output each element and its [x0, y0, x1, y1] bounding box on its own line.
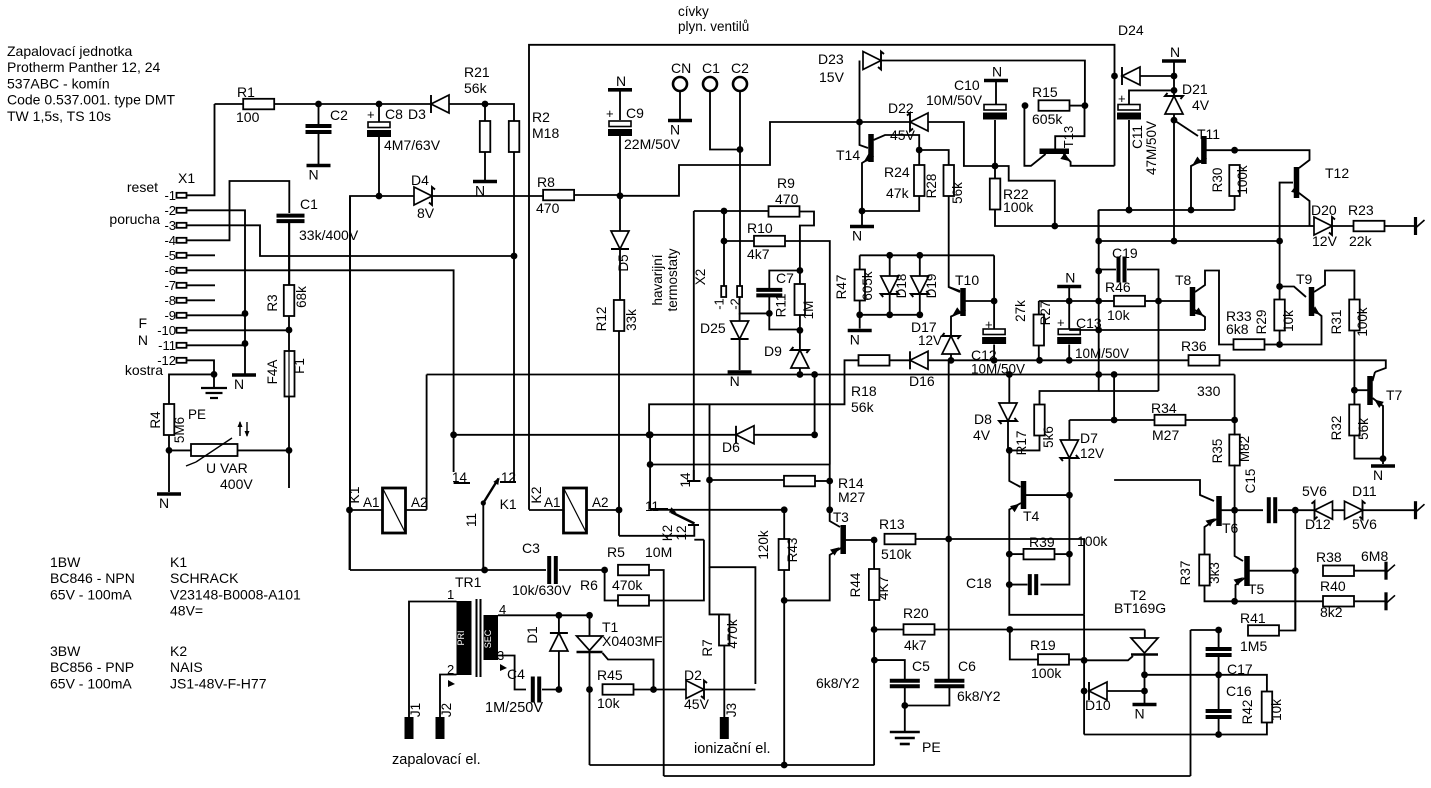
- svg-text:N: N: [852, 228, 862, 244]
- arrow T9 emitter: [1311, 306, 1323, 317]
- wire X1-11 to N line: [187, 344, 246, 346]
- wire K1 A2 lead: [406, 509, 427, 511]
- junction D1 top: [556, 612, 563, 619]
- wire x709 vertical: [709, 404, 711, 480]
- net N under R21: [473, 180, 497, 184]
- wire C9 to junction: [619, 136, 621, 196]
- svg-text:C6: C6: [958, 658, 976, 674]
- wire y435 line: [454, 434, 710, 436]
- X1 pin -8 pad: [177, 298, 187, 303]
- wire long line y374: [427, 374, 1235, 376]
- wire T3 collector: [846, 539, 875, 541]
- wire T14 node to D23: [859, 61, 861, 123]
- wire C16 bottom lead: [1218, 718, 1220, 735]
- wire R43 bottom to rail A: [783, 570, 785, 765]
- junction K1 pivot on C3 line: [481, 567, 488, 574]
- svg-text:C1: C1: [702, 60, 720, 76]
- wire kostra to R4: [169, 374, 214, 404]
- zener diode D11 5V6: [1345, 501, 1363, 519]
- svg-text:R5: R5: [607, 544, 625, 560]
- svg-text:R27: R27: [1038, 301, 1053, 326]
- wire T8 base vertical: [1158, 301, 1160, 391]
- junction D8/R17: [1006, 447, 1013, 454]
- svg-text:605k: 605k: [860, 271, 875, 301]
- wire R29 top lead: [1279, 287, 1281, 300]
- wire D18 top lead: [889, 255, 891, 277]
- junction R10 left: [721, 238, 728, 245]
- X1 pin -7 pad: [177, 283, 187, 288]
- svg-text:470k: 470k: [612, 577, 643, 593]
- svg-text:X2: X2: [693, 269, 708, 286]
- X1 pin -6 pad: [177, 268, 187, 273]
- svg-text:R12: R12: [594, 307, 609, 332]
- svg-text:R8: R8: [537, 174, 555, 190]
- resistor R47: [855, 270, 866, 301]
- wire D1 top lead: [558, 615, 560, 634]
- svg-text:N: N: [159, 495, 169, 511]
- svg-text:TR1: TR1: [455, 574, 482, 590]
- capacitor C2: [306, 126, 332, 132]
- junction R24 bottom: [859, 208, 866, 215]
- arrow T13 emitter: [1060, 153, 1072, 164]
- svg-text:cívky: cívky: [678, 4, 709, 19]
- svg-text:5V6: 5V6: [1302, 483, 1327, 499]
- junction C19 left: [1095, 268, 1102, 275]
- resistor R45: [603, 684, 634, 695]
- svg-text:R31: R31: [1329, 310, 1344, 335]
- arrow K2 arm: [669, 507, 678, 515]
- wire T2 cathode down: [1144, 655, 1146, 704]
- zener diode D17 12V: [942, 336, 960, 354]
- thyristor T1: [577, 636, 603, 651]
- terminal after R38: [1384, 562, 1387, 580]
- wire K2 A2 lead: [587, 509, 620, 511]
- svg-text:N: N: [1135, 706, 1145, 722]
- net N above C13: [1057, 285, 1081, 289]
- junction y330 branch: [1095, 327, 1102, 334]
- junction R22 bottom line: [1051, 223, 1058, 230]
- wire K1 A1 lead: [350, 509, 383, 511]
- wire D3 to R21: [449, 103, 485, 105]
- wire T7 emitter: [1373, 398, 1384, 459]
- resistor R37: [1199, 555, 1210, 586]
- svg-text:6k8/Y2: 6k8/Y2: [816, 675, 860, 691]
- svg-text:537ABC - komín: 537ABC - komín: [7, 75, 110, 91]
- X1 pin -9 pad: [177, 313, 187, 318]
- transistor T6 bar: [1216, 496, 1222, 526]
- junction varistor/F1 line: [286, 447, 293, 454]
- wire T2 gate: [1084, 656, 1133, 660]
- svg-text:100k: 100k: [1235, 165, 1250, 195]
- svg-text:F: F: [138, 315, 147, 331]
- arrow T3 emitter: [830, 544, 842, 555]
- wire T14 emitter: [862, 156, 874, 225]
- svg-text:330: 330: [1197, 383, 1221, 399]
- svg-text:15V: 15V: [819, 69, 845, 85]
- wire R43 top lead: [783, 510, 785, 539]
- svg-text:R21: R21: [464, 64, 490, 80]
- svg-text:5V6: 5V6: [1352, 516, 1377, 532]
- svg-text:-5: -5: [164, 248, 176, 263]
- svg-text:-6: -6: [164, 263, 176, 278]
- transistor T13 bar horizontal: [1040, 149, 1070, 155]
- junction C8 bottom / D4 line: [376, 193, 383, 200]
- wire R9 right to R11 top: [800, 212, 815, 271]
- wire D18 bottom lead: [889, 294, 891, 315]
- wire x949 vertical D17 to C6 top: [948, 360, 950, 679]
- svg-text:T7: T7: [1386, 387, 1403, 403]
- wire D6 node riser to y374: [814, 375, 816, 435]
- wire T8 collector to R33: [1195, 271, 1234, 345]
- wire TR1 pin4 line: [498, 614, 559, 616]
- svg-text:C18: C18: [966, 575, 992, 591]
- wire to D21: [1173, 90, 1175, 97]
- wire C8 junction to D4: [379, 195, 414, 197]
- capacitor C5: [890, 681, 920, 686]
- ground PE: [890, 732, 920, 744]
- arrow T12 emitter: [1291, 186, 1303, 197]
- K2 contact arm: [671, 512, 695, 524]
- diode D10: [1089, 682, 1107, 700]
- wire R42 bottom to y734: [1219, 723, 1267, 735]
- junction R5/R6 left: [601, 567, 608, 574]
- coil terminal C1: [703, 77, 717, 91]
- wire x704 riser to K2-12 line: [703, 540, 705, 560]
- svg-text:R47: R47: [834, 275, 849, 300]
- junction R39 right: [1066, 551, 1073, 558]
- zener diode D9: [791, 350, 809, 368]
- resistor R17: [1034, 405, 1045, 436]
- wire R44 top lead: [873, 540, 875, 569]
- wire T8 emitter: [1195, 310, 1205, 330]
- wire D16 line to R36: [928, 359, 1189, 361]
- resistor R46: [1114, 296, 1145, 307]
- junction x1099 riser: [1095, 371, 1102, 378]
- capacitor C15: [1269, 497, 1275, 523]
- wire R36 right to T7 collector: [1220, 360, 1386, 372]
- arrow T4 emitter: [1010, 501, 1022, 512]
- diode D25: [731, 321, 749, 339]
- svg-text:-9: -9: [164, 308, 176, 323]
- wire to D12: [1295, 509, 1314, 511]
- svg-text:4k7: 4k7: [904, 637, 927, 653]
- capacitor C1: [277, 216, 305, 222]
- resistor R20: [904, 624, 935, 635]
- svg-text:T3: T3: [833, 510, 849, 525]
- wire y255 rail (R47/D18/D19): [860, 254, 994, 256]
- svg-text:11: 11: [464, 513, 479, 527]
- wire X1-3 to R2 net: [187, 225, 515, 256]
- svg-text:-11: -11: [158, 338, 176, 353]
- wire to R24: [918, 150, 920, 165]
- wire K2 contact 11 to R43/T3 net: [650, 509, 784, 511]
- wire R33 right: [1265, 344, 1280, 346]
- junction K1 A1 / x350: [346, 507, 353, 514]
- junction T6 collector: [1231, 507, 1238, 514]
- svg-text:100k: 100k: [1355, 307, 1370, 337]
- arrow T11 emitter: [1190, 157, 1202, 168]
- junction D19 bottom: [916, 311, 923, 318]
- transistor T5 bar: [1244, 556, 1250, 586]
- wire to PE ground: [904, 706, 906, 732]
- wire R4 to varistor node: [168, 435, 170, 450]
- zener diode D19: [911, 276, 929, 294]
- wire R27 top: [1038, 301, 1040, 315]
- svg-text:R45: R45: [597, 667, 623, 683]
- wire K1 A1 down to C3 line: [349, 510, 351, 570]
- svg-text:termostaty: termostaty: [665, 248, 680, 311]
- svg-text:33k: 33k: [624, 309, 639, 331]
- svg-text:C1: C1: [300, 196, 318, 212]
- X1 pin -11 pad: [177, 343, 187, 348]
- capacitor C3: [549, 556, 556, 584]
- wire y734 line: [1084, 734, 1219, 736]
- svg-text:12V: 12V: [1080, 446, 1104, 461]
- junction K1 arm pivot: [481, 500, 486, 505]
- wire R17 top to x1099: [1040, 375, 1099, 405]
- net N under C2: [307, 164, 331, 168]
- wire kostra ground stem: [213, 374, 215, 387]
- wire R2 to junction: [513, 152, 515, 256]
- arrow T7 emitter: [1372, 396, 1384, 407]
- svg-text:A2: A2: [592, 495, 609, 510]
- resistor R24: [914, 165, 925, 196]
- svg-text:K1: K1: [500, 496, 517, 512]
- junction D10 right on cathode line: [1141, 688, 1148, 695]
- wire to R22: [994, 166, 996, 179]
- svg-text:plyn. ventilů: plyn. ventilů: [678, 19, 749, 34]
- junction y435 at K2-11: [647, 431, 654, 438]
- svg-text:100k: 100k: [1003, 199, 1034, 215]
- transistor T9 bar: [1309, 287, 1315, 316]
- wire R5R6 node to x704 riser: [664, 560, 704, 601]
- junction D17 on D16 line: [948, 357, 955, 364]
- svg-text:D8: D8: [974, 411, 992, 427]
- junction R47 bottom: [856, 311, 863, 318]
- wire C13 bottom lead: [1068, 345, 1070, 361]
- wire C17 top lead: [1218, 630, 1220, 648]
- net N under D25: [728, 370, 752, 374]
- wire C7 bottom to R11 bottom: [769, 313, 800, 329]
- wire X2 top to R9: [694, 210, 769, 212]
- wire D7 net down to C18 right: [1041, 495, 1070, 584]
- electrolytic capacitor C10: [984, 105, 1006, 111]
- svg-text:K1: K1: [170, 554, 187, 570]
- svg-text:-8: -8: [164, 293, 176, 308]
- svg-text:R13: R13: [879, 516, 905, 532]
- junction kostra: [211, 371, 218, 378]
- wire R19 right lead: [1069, 659, 1084, 661]
- wire T11 emitter: [1191, 158, 1207, 210]
- resistor R36: [1189, 355, 1220, 366]
- svg-text:R41: R41: [1240, 610, 1266, 626]
- junction D2 riser: [754, 683, 756, 685]
- wire R14 right lead: [815, 480, 830, 482]
- svg-text:R34: R34: [1151, 400, 1177, 416]
- wire R14 left lead: [710, 479, 785, 481]
- zener diode D8 4V: [999, 403, 1017, 421]
- junction C2 top: [315, 101, 322, 108]
- junction R18 net on y435: [646, 431, 653, 438]
- net N above C10: [984, 79, 1008, 83]
- svg-text:ionizační el.: ionizační el.: [694, 741, 771, 757]
- svg-text:+: +: [367, 107, 375, 122]
- svg-text:R30: R30: [1210, 168, 1225, 193]
- electrolytic capacitor C9: [609, 121, 631, 127]
- svg-text:10M/50V: 10M/50V: [926, 92, 983, 108]
- wire D24 node down to T13 emitter: [1114, 76, 1116, 166]
- svg-text:22M/50V: 22M/50V: [624, 136, 681, 152]
- junction R21 top: [482, 101, 489, 108]
- wire node down: [1173, 76, 1175, 90]
- svg-text:BC856 - PNP: BC856 - PNP: [50, 659, 134, 675]
- svg-text:-4: -4: [164, 233, 176, 248]
- svg-text:3k3: 3k3: [1207, 562, 1222, 584]
- svg-text:+: +: [1057, 315, 1065, 330]
- svg-text:10M/50V: 10M/50V: [1075, 346, 1129, 361]
- wire x1295 vertical: [1294, 510, 1296, 630]
- svg-text:kostra: kostra: [125, 362, 163, 378]
- svg-text:4K7: 4K7: [876, 576, 891, 600]
- svg-text:M82: M82: [1237, 436, 1252, 462]
- wire T10 collector lead: [966, 300, 995, 302]
- wire N to C13 node: [1068, 287, 1070, 302]
- junction C5 bottom / PE: [901, 702, 908, 709]
- junction D18 bottom: [886, 311, 893, 318]
- wire C3 line left part: [350, 569, 546, 571]
- svg-text:NAIS: NAIS: [170, 659, 203, 675]
- wire R9 node down: [723, 211, 725, 241]
- svg-text:C3: C3: [522, 540, 540, 556]
- resistor R40: [1323, 596, 1354, 607]
- wire R23 to terminal: [1385, 225, 1416, 227]
- wire C2 to C8: [319, 103, 380, 105]
- junction D21 bottom: [1171, 117, 1178, 124]
- wire D7 to R34 line: [1069, 419, 1114, 421]
- svg-text:5M6: 5M6: [172, 417, 187, 443]
- wire T8 base lead: [1159, 300, 1191, 302]
- wire R1 to C2: [274, 103, 318, 105]
- svg-text:12: 12: [674, 525, 689, 540]
- wire N to node: [1173, 61, 1175, 76]
- transistor T7 bar: [1367, 376, 1373, 405]
- wire x663 down to rail B: [663, 601, 665, 777]
- capacitor C19: [1119, 257, 1125, 283]
- wire C12 top: [993, 301, 995, 329]
- wire T1 gate: [603, 653, 654, 690]
- svg-text:R37: R37: [1178, 561, 1193, 586]
- svg-text:1M5: 1M5: [1240, 638, 1267, 654]
- wire C13 top lead: [1068, 301, 1070, 329]
- svg-text:zapalovací el.: zapalovací el.: [392, 752, 481, 768]
- wire R6 right: [649, 600, 664, 602]
- TR1 polarity dot pri: [448, 680, 455, 687]
- wire R40 to terminal: [1355, 600, 1387, 602]
- wire X1-6 to K1 contact 14: [187, 270, 454, 435]
- wire K2 A1 lead: [529, 509, 564, 511]
- svg-text:27k: 27k: [1013, 300, 1028, 322]
- svg-text:100k: 100k: [1031, 665, 1062, 681]
- svg-text:SCHRACK: SCHRACK: [170, 570, 239, 586]
- zener diode D21 4V: [1165, 96, 1183, 114]
- resistor R39: [1024, 549, 1055, 560]
- wire T11 collector: [1207, 149, 1235, 151]
- wire y391 to T8 net: [1099, 390, 1159, 392]
- wire T1 cathode down to rail A: [589, 690, 591, 766]
- svg-text:T10: T10: [955, 272, 979, 288]
- wire T12 base riser: [1280, 183, 1293, 241]
- svg-text:10k: 10k: [1269, 699, 1284, 721]
- resistor R7: [719, 615, 730, 646]
- svg-text:R23: R23: [1348, 202, 1374, 218]
- wire D23 to R15 right: [881, 61, 1085, 106]
- svg-text:R29: R29: [1254, 310, 1269, 335]
- net N under X1 lines: [232, 373, 256, 377]
- wire K2 contact 11 lead: [649, 435, 651, 509]
- wire x1099 vertical: [1098, 210, 1100, 375]
- wire R32 bottom to emitter: [1354, 436, 1383, 459]
- wire T13 base to R15 right: [1055, 106, 1084, 149]
- junction T4 collector on D7 line: [1066, 492, 1073, 499]
- wire to R10: [724, 240, 754, 242]
- wire long line right end to R34/R35: [1234, 375, 1236, 421]
- wire D4 to R8: [432, 195, 543, 197]
- svg-text:D23: D23: [818, 51, 844, 67]
- wire junction to X2-1: [723, 241, 725, 286]
- svg-text:D3: D3: [408, 106, 426, 122]
- wire to C11: [1129, 90, 1174, 104]
- svg-text:3BW: 3BW: [50, 643, 81, 659]
- wire R20 left lead: [874, 629, 903, 631]
- svg-text:R10: R10: [747, 220, 773, 236]
- wire R13 right: [916, 538, 949, 540]
- svg-text:R40: R40: [1320, 578, 1346, 594]
- svg-text:10M: 10M: [645, 544, 672, 560]
- wire T1 cathode lead: [589, 652, 591, 690]
- svg-text:N: N: [1170, 44, 1180, 60]
- K1 contact arm: [483, 479, 498, 504]
- junction T12 base riser: [1276, 238, 1283, 245]
- terminal after R40: [1384, 592, 1387, 610]
- svg-text:X0403MF: X0403MF: [602, 633, 663, 649]
- net N above C9: [608, 88, 632, 92]
- resistor R9: [769, 206, 800, 217]
- varistor U VAR 400V: [191, 444, 238, 456]
- wire X1-7 stub: [187, 284, 216, 286]
- wire y241 line: [1098, 240, 1279, 242]
- svg-text:R3: R3: [265, 294, 280, 311]
- junction R39 left / T4 emitter: [1006, 551, 1013, 558]
- wire D21 bottom: [1173, 114, 1175, 120]
- junction D24 left: [1111, 73, 1118, 80]
- wire R20 right line: [935, 629, 1145, 631]
- wire T12 emitter to D20: [1310, 225, 1315, 227]
- resistor R35: [1229, 435, 1240, 466]
- wire R45 right: [634, 689, 654, 691]
- X1 pin -3 pad: [177, 223, 187, 228]
- svg-text:R9: R9: [777, 175, 795, 191]
- svg-text:R6: R6: [580, 577, 598, 593]
- svg-text:N: N: [992, 64, 1002, 80]
- svg-text:X1: X1: [178, 170, 195, 186]
- junction y435 at K1-14: [450, 431, 457, 438]
- svg-text:12V: 12V: [1312, 233, 1338, 249]
- wire C6 top joint: [948, 678, 951, 680]
- svg-text:D4: D4: [411, 172, 429, 188]
- wire X1-10 to R3/F1: [187, 329, 290, 331]
- wire x1190 vertical to rail B: [1190, 630, 1192, 776]
- svg-text:R18: R18: [851, 383, 877, 399]
